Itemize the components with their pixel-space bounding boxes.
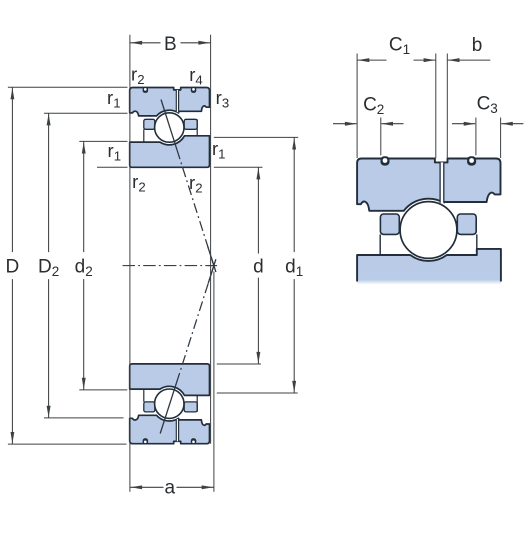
svg-text:d: d (253, 256, 264, 277)
cage land lines (143, 389, 145, 402)
dimension d2 (79, 140, 127, 142)
cage pocket left (right view) (380, 214, 399, 234)
dimension D2 (44, 112, 128, 114)
cage pocket right (right view) (457, 214, 476, 234)
dimension B (129, 35, 131, 492)
inner ring (130, 364, 210, 396)
dimension d1 (214, 136, 298, 138)
lubrication slot channel (176, 90, 178, 112)
svg-text:a: a (165, 478, 176, 499)
ball (155, 113, 184, 142)
outer ring (left view) (130, 88, 210, 116)
cage land lines (right view) (379, 234, 381, 255)
dimension C2 (333, 123, 357, 125)
svg-text:b: b (472, 35, 483, 56)
outer ring (left view bottom) (130, 415, 210, 443)
outer ring (right view) (357, 159, 500, 211)
cage pocket left (144, 402, 155, 412)
inner ring (130, 136, 210, 168)
inner ring (right view) (357, 249, 501, 285)
lubrication hole (right view) (467, 156, 476, 165)
lubrication hole (191, 438, 197, 444)
dimension C1 (357, 59, 386, 61)
lubrication slot channel (right view) (440, 162, 444, 203)
cage pocket left (144, 119, 155, 129)
dimension a (213, 272, 215, 492)
r-leader bore left (97, 166, 128, 168)
dimension C3 (452, 123, 475, 125)
ball (right view) (400, 202, 457, 259)
lubrication hole (143, 87, 149, 93)
svg-text:B: B (164, 34, 177, 55)
lubrication hole (right view) (381, 156, 390, 165)
lubrication hole (143, 438, 149, 444)
cage pocket right (184, 119, 197, 129)
contact angle line upper (161, 100, 177, 150)
svg-text:D: D (6, 256, 20, 277)
ball (155, 389, 184, 418)
extension lines (right view) (356, 54, 358, 159)
cage pocket right (184, 402, 197, 412)
dimension D (8, 86, 128, 88)
dimension d (214, 166, 263, 168)
contact angle line lower (178, 266, 214, 379)
lubrication slot channel (176, 419, 178, 441)
dimension b (447, 59, 490, 61)
shaft axis centerline (123, 265, 218, 267)
lubrication hole (191, 87, 197, 93)
cage land lines (143, 129, 145, 142)
